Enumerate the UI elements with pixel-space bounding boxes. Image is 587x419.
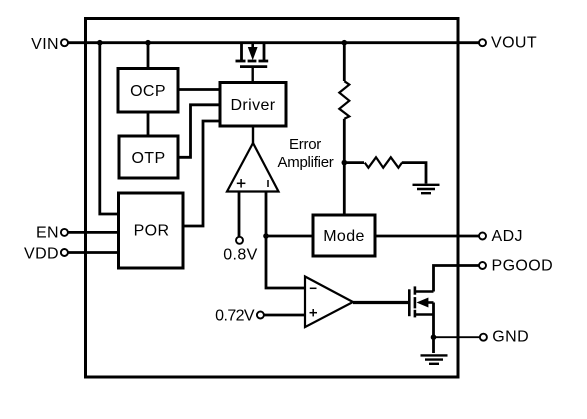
svg-text:PGOOD: PGOOD (492, 257, 554, 274)
svg-text:OCP: OCP (130, 83, 166, 100)
svg-text:VOUT: VOUT (491, 35, 537, 52)
svg-text:VIN: VIN (31, 36, 59, 53)
M1 channel dashes (236, 60, 246, 63)
wire VIN to OCP (147, 43, 150, 69)
VIN pin (31, 36, 68, 53)
M1 gate bar (240, 65, 267, 68)
wire OCP to OTP (147, 112, 150, 136)
op-amp error amplifier U1 (227, 143, 279, 192)
node GND junction (431, 334, 437, 340)
Q1 body arrow (417, 298, 429, 308)
block OTP (119, 136, 178, 178)
wire 0.72V to U2 plus input (261, 314, 306, 317)
svg-text:VDD: VDD (24, 245, 59, 262)
wire R2 to ground (402, 163, 426, 184)
wire Mode to ADJ (375, 235, 480, 238)
wire OTP to Driver (178, 105, 220, 158)
U1 plus mark (237, 182, 246, 184)
Q1 gate bar (408, 289, 411, 316)
comparator U2 (305, 277, 353, 328)
0.72V reference terminal (215, 308, 264, 325)
svg-text:GND: GND (492, 328, 529, 345)
node VIN rail divider branch (342, 40, 348, 46)
Q1 drain stub (415, 290, 434, 293)
wire U1 inverting input feedback to comparator (266, 192, 305, 289)
ground (divider) (413, 185, 440, 193)
svg-text:ADJ: ADJ (492, 228, 523, 245)
svg-text:Mode: Mode (323, 228, 365, 245)
block Mode (313, 215, 375, 256)
transistor Q1 PGOOD NMOS (409, 286, 433, 317)
wire U1 non-inverting input to 0.8V (238, 192, 241, 238)
0.8V reference terminal (223, 237, 258, 263)
svg-text:Amplifier: Amplifier (277, 154, 333, 171)
svg-text:OTP: OTP (131, 150, 165, 167)
svg-text:0.72V: 0.72V (215, 308, 255, 325)
M1 drain leg (263, 43, 266, 60)
block OCP (118, 69, 178, 113)
ADJ pin (479, 228, 523, 245)
wire Driver to error amplifier (252, 126, 254, 144)
wire R1 to divider tap (343, 119, 346, 163)
wire to GND pin (434, 336, 481, 338)
M1 body arrow (251, 44, 254, 51)
block POR (119, 193, 184, 268)
U1 inverting mark (267, 180, 269, 187)
svg-text:EN: EN (36, 225, 59, 242)
IC boundary box (86, 19, 459, 378)
resistor R1 (339, 81, 349, 119)
wire Driver to M1 gate (251, 67, 253, 83)
wire U2 output to Q1 gate (353, 301, 408, 304)
M1 source leg (240, 43, 243, 60)
Q1 channel dashes (414, 286, 417, 294)
U2 plus mark (310, 312, 318, 314)
svg-text:Driver: Driver (230, 97, 275, 114)
svg-text:0.8V: 0.8V (223, 246, 258, 263)
wire VDD to POR (65, 251, 119, 254)
wire tap to Mode (343, 163, 346, 215)
VDD pin (24, 245, 68, 262)
wire EN to POR (65, 231, 119, 234)
block Driver (220, 83, 286, 127)
VOUT pin (479, 35, 537, 52)
wire VOUT rail to R1 (343, 43, 346, 81)
label Error Amplifier (277, 136, 333, 171)
PGOOD pin (479, 257, 553, 274)
wire tap to R2 (344, 161, 364, 164)
svg-text:Error: Error (289, 136, 321, 153)
ground (Q1 source) (421, 355, 448, 363)
wire Q1 drain to PGOOD (434, 266, 481, 292)
wire Q1 source to ground (432, 303, 435, 354)
wire VIN to POR (100, 43, 119, 214)
svg-text:POR: POR (134, 222, 170, 239)
transistor M1 PMOS pass device (236, 43, 269, 67)
GND pin (480, 328, 529, 345)
wire OCP to Driver (178, 88, 220, 91)
node VIN/POR branch (97, 40, 103, 46)
node divider tap (342, 160, 348, 166)
Q1 source stub (415, 313, 434, 316)
U2 inverting mark (310, 287, 317, 289)
node VIN/OCP branch (145, 40, 151, 46)
wire POR to Driver (183, 121, 220, 226)
resistor R2 (365, 157, 402, 167)
wire VIN rail (VIN to VOUT) (67, 41, 480, 44)
EN pin (36, 225, 68, 242)
node feedback junction (263, 233, 269, 239)
wire feedback to Mode (266, 235, 313, 238)
